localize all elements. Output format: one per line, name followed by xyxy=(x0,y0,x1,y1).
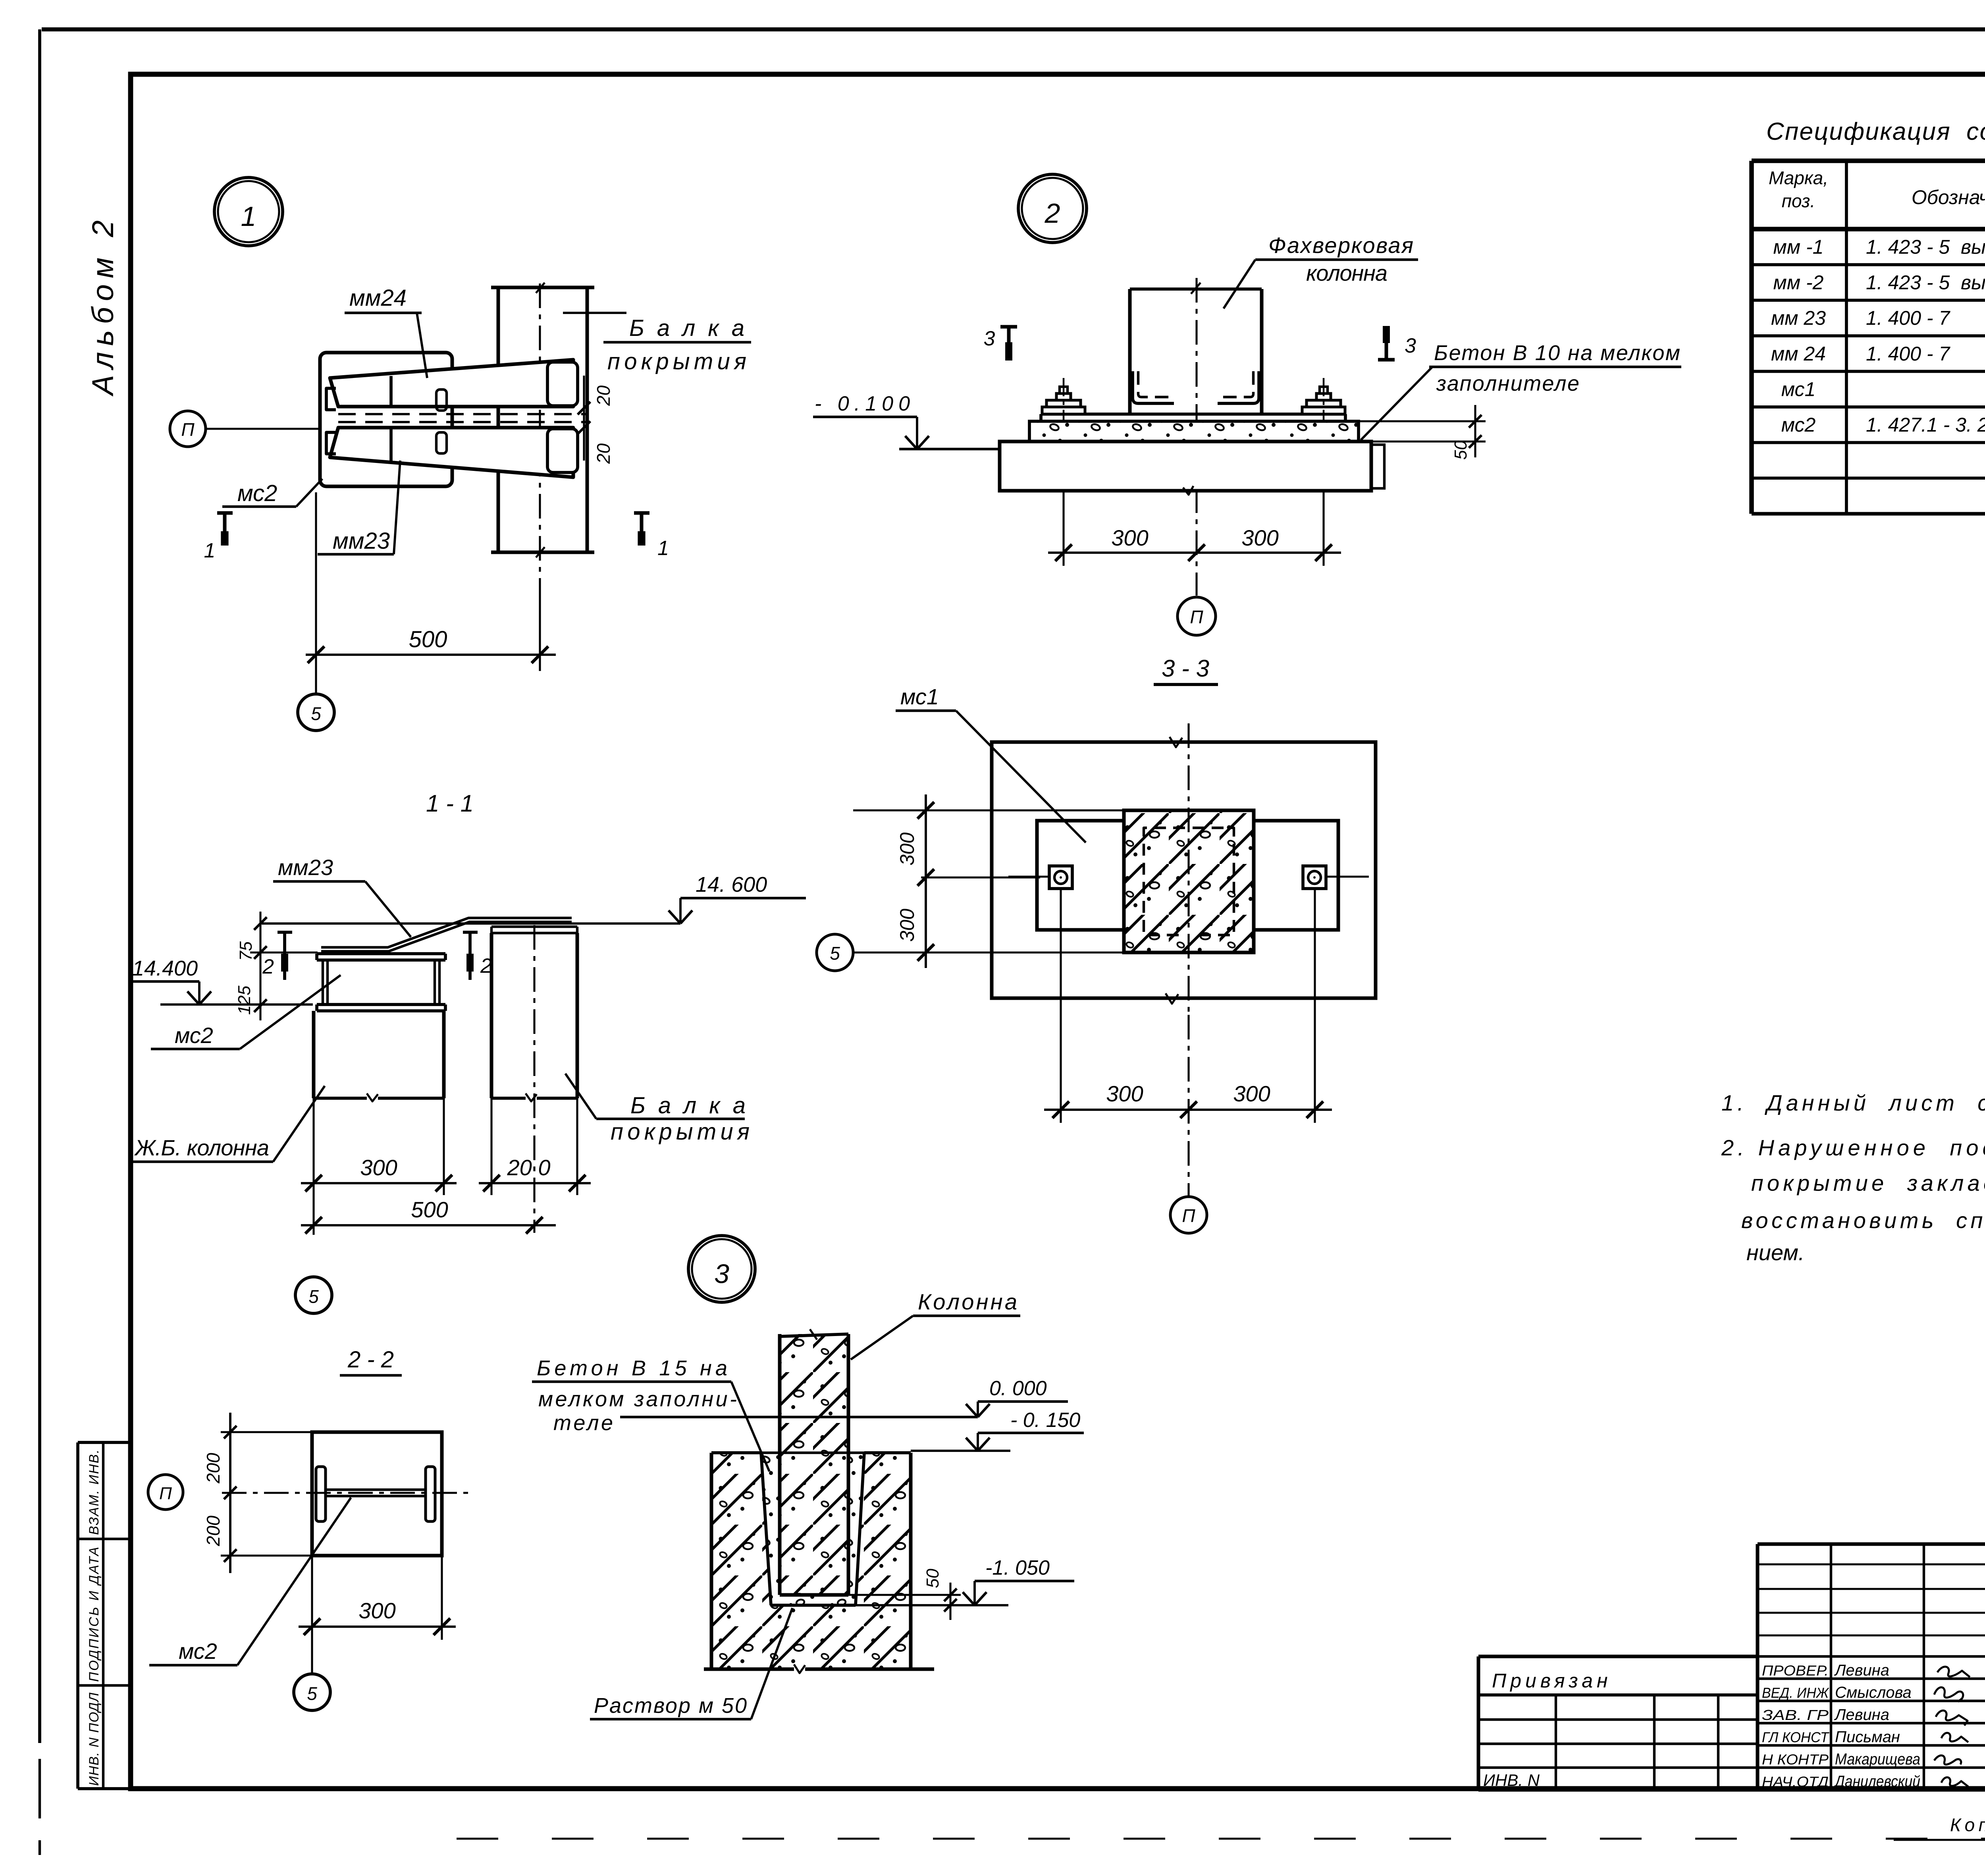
svg-text:нием.: нием. xyxy=(1746,1240,1804,1265)
svg-text:5: 5 xyxy=(311,703,321,724)
svg-text:2. Нарушенное после монтажа: 2. Нарушенное после монтажа антикоррозий… xyxy=(1721,1135,1985,1160)
svg-text:2 - 2: 2 - 2 xyxy=(347,1347,394,1373)
svg-text:мм 24: мм 24 xyxy=(1771,343,1826,365)
svg-text:ВЗАМ. ИНВ.: ВЗАМ. ИНВ. xyxy=(87,1450,102,1535)
svg-text:5: 5 xyxy=(307,1683,317,1704)
svg-text:Ж.Б. колонна: Ж.Б. колонна xyxy=(134,1135,269,1160)
svg-text:покрытия: покрытия xyxy=(611,1119,750,1145)
svg-text:20: 20 xyxy=(593,443,614,464)
svg-text:1: 1 xyxy=(204,539,216,562)
svg-text:300: 300 xyxy=(1106,1081,1143,1106)
svg-text:14.400: 14.400 xyxy=(132,956,198,980)
svg-text:5: 5 xyxy=(830,943,840,964)
svg-text:Обозначение: Обозначение xyxy=(1912,186,1985,208)
svg-text:мс1: мс1 xyxy=(900,684,939,709)
svg-text:300: 300 xyxy=(1233,1081,1270,1106)
svg-text:поз.: поз. xyxy=(1782,191,1815,211)
svg-text:3: 3 xyxy=(984,327,995,350)
svg-text:мс2: мс2 xyxy=(179,1639,217,1664)
svg-text:200: 200 xyxy=(203,1515,224,1546)
svg-text:1: 1 xyxy=(657,537,669,560)
svg-text:ГЛ КОНСТ: ГЛ КОНСТ xyxy=(1762,1729,1830,1745)
svg-text:1 - 1: 1 - 1 xyxy=(426,790,474,817)
svg-text:3: 3 xyxy=(1405,334,1416,357)
svg-text:500: 500 xyxy=(411,1197,448,1222)
svg-text:заполнителе: заполнителе xyxy=(1436,372,1579,395)
svg-text:2: 2 xyxy=(1045,198,1060,229)
svg-text:Фахверковая: Фахверковая xyxy=(1268,233,1413,258)
svg-text:14. 600: 14. 600 xyxy=(696,873,767,897)
svg-text:Письман: Письман xyxy=(1835,1728,1900,1746)
svg-text:300: 300 xyxy=(896,908,918,942)
svg-text:ЗАВ. ГР: ЗАВ. ГР xyxy=(1762,1707,1829,1723)
svg-text:Колонна: Колонна xyxy=(918,1289,1017,1314)
svg-text:ПОДПИСЬ И ДАТА: ПОДПИСЬ И ДАТА xyxy=(87,1547,102,1682)
svg-text:1. 400 - 7: 1. 400 - 7 xyxy=(1866,343,1950,365)
svg-text:Бетон В 10 на мелком: Бетон В 10 на мелком xyxy=(1434,341,1680,365)
svg-text:Левина: Левина xyxy=(1834,1662,1889,1679)
svg-text:Макарищева: Макарищева xyxy=(1835,1751,1920,1768)
svg-text:50: 50 xyxy=(1451,440,1470,460)
svg-text:0. 000: 0. 000 xyxy=(989,1377,1047,1400)
svg-text:20: 20 xyxy=(593,385,614,406)
svg-text:3: 3 xyxy=(714,1259,729,1289)
svg-text:1. 427.1 - 3. 2 - 0. 2 5. 0: 1. 427.1 - 3. 2 - 0. 2 5. 0 xyxy=(1866,414,1985,436)
svg-text:колонна: колонна xyxy=(1306,260,1388,285)
svg-text:ВЕД. ИНЖ: ВЕД. ИНЖ xyxy=(1762,1685,1829,1701)
svg-text:500: 500 xyxy=(409,627,447,652)
svg-text:восстановить способом мета: восстановить способом металлизации распы… xyxy=(1741,1208,1985,1233)
svg-text:300: 300 xyxy=(1111,525,1148,550)
svg-text:П: П xyxy=(181,419,195,440)
svg-text:ИНВ. N ПОДЛ: ИНВ. N ПОДЛ xyxy=(87,1692,102,1786)
svg-text:Левина: Левина xyxy=(1834,1706,1889,1724)
svg-text:ИНВ. N: ИНВ. N xyxy=(1483,1771,1540,1789)
svg-text:300: 300 xyxy=(896,832,918,866)
svg-text:теле: теле xyxy=(553,1411,613,1435)
svg-text:20 0: 20 0 xyxy=(507,1155,551,1180)
svg-text:мм23: мм23 xyxy=(333,528,390,554)
svg-text:Раствор м 50: Раствор м 50 xyxy=(594,1694,747,1718)
svg-text:1. 423 - 5 вып. 3: 1. 423 - 5 вып. 3 xyxy=(1866,236,1985,258)
svg-text:покрытия: покрытия xyxy=(607,349,746,374)
svg-text:мм 23: мм 23 xyxy=(1771,307,1826,329)
svg-text:125: 125 xyxy=(235,985,254,1015)
svg-text:Привязан: Привязан xyxy=(1492,1670,1612,1692)
svg-text:Марка,: Марка, xyxy=(1769,168,1828,188)
svg-text:300: 300 xyxy=(1241,525,1278,550)
svg-text:300: 300 xyxy=(360,1155,397,1180)
svg-text:мм -1: мм -1 xyxy=(1773,236,1824,258)
svg-text:75: 75 xyxy=(236,941,256,961)
svg-text:мм -2: мм -2 xyxy=(1773,272,1824,294)
svg-text:мм23: мм23 xyxy=(278,855,333,880)
svg-text:мс2: мс2 xyxy=(1781,414,1816,436)
svg-text:50: 50 xyxy=(923,1569,942,1588)
svg-text:1. Данный лист см. совмест: 1. Данный лист см. совместно с черт. кж … xyxy=(1721,1090,1985,1115)
svg-text:ПРОВЕР.: ПРОВЕР. xyxy=(1762,1662,1829,1679)
svg-text:мс2: мс2 xyxy=(237,480,277,506)
svg-text:мм24: мм24 xyxy=(349,285,407,311)
svg-text:П: П xyxy=(1182,1205,1195,1226)
svg-text:Данилевский: Данилевский xyxy=(1833,1773,1920,1790)
svg-text:- 0. 150: - 0. 150 xyxy=(1010,1409,1080,1432)
svg-text:П: П xyxy=(1190,607,1203,627)
svg-text:-1. 050: -1. 050 xyxy=(985,1556,1050,1579)
svg-text:5: 5 xyxy=(308,1286,319,1307)
svg-text:мс1: мс1 xyxy=(1781,378,1816,400)
svg-text:1. 400 - 7: 1. 400 - 7 xyxy=(1866,307,1950,329)
svg-text:1. 423 - 5 вып. 3: 1. 423 - 5 вып. 3 xyxy=(1866,272,1985,294)
svg-text:200: 200 xyxy=(203,1453,224,1484)
svg-text:1: 1 xyxy=(241,201,256,232)
svg-text:300: 300 xyxy=(358,1598,395,1623)
svg-text:НАЧ.ОТД: НАЧ.ОТД xyxy=(1762,1774,1829,1790)
svg-text:Н КОНТР: Н КОНТР xyxy=(1762,1751,1829,1768)
svg-text:мс2: мс2 xyxy=(175,1023,213,1048)
svg-text:П: П xyxy=(159,1484,172,1503)
svg-text:2: 2 xyxy=(262,955,274,978)
svg-text:Копировал Родлевская: Копировал Родлевская xyxy=(1950,1814,1985,1835)
svg-text:Смыслова: Смыслова xyxy=(1835,1684,1912,1701)
svg-text:3 - 3: 3 - 3 xyxy=(1162,655,1209,682)
